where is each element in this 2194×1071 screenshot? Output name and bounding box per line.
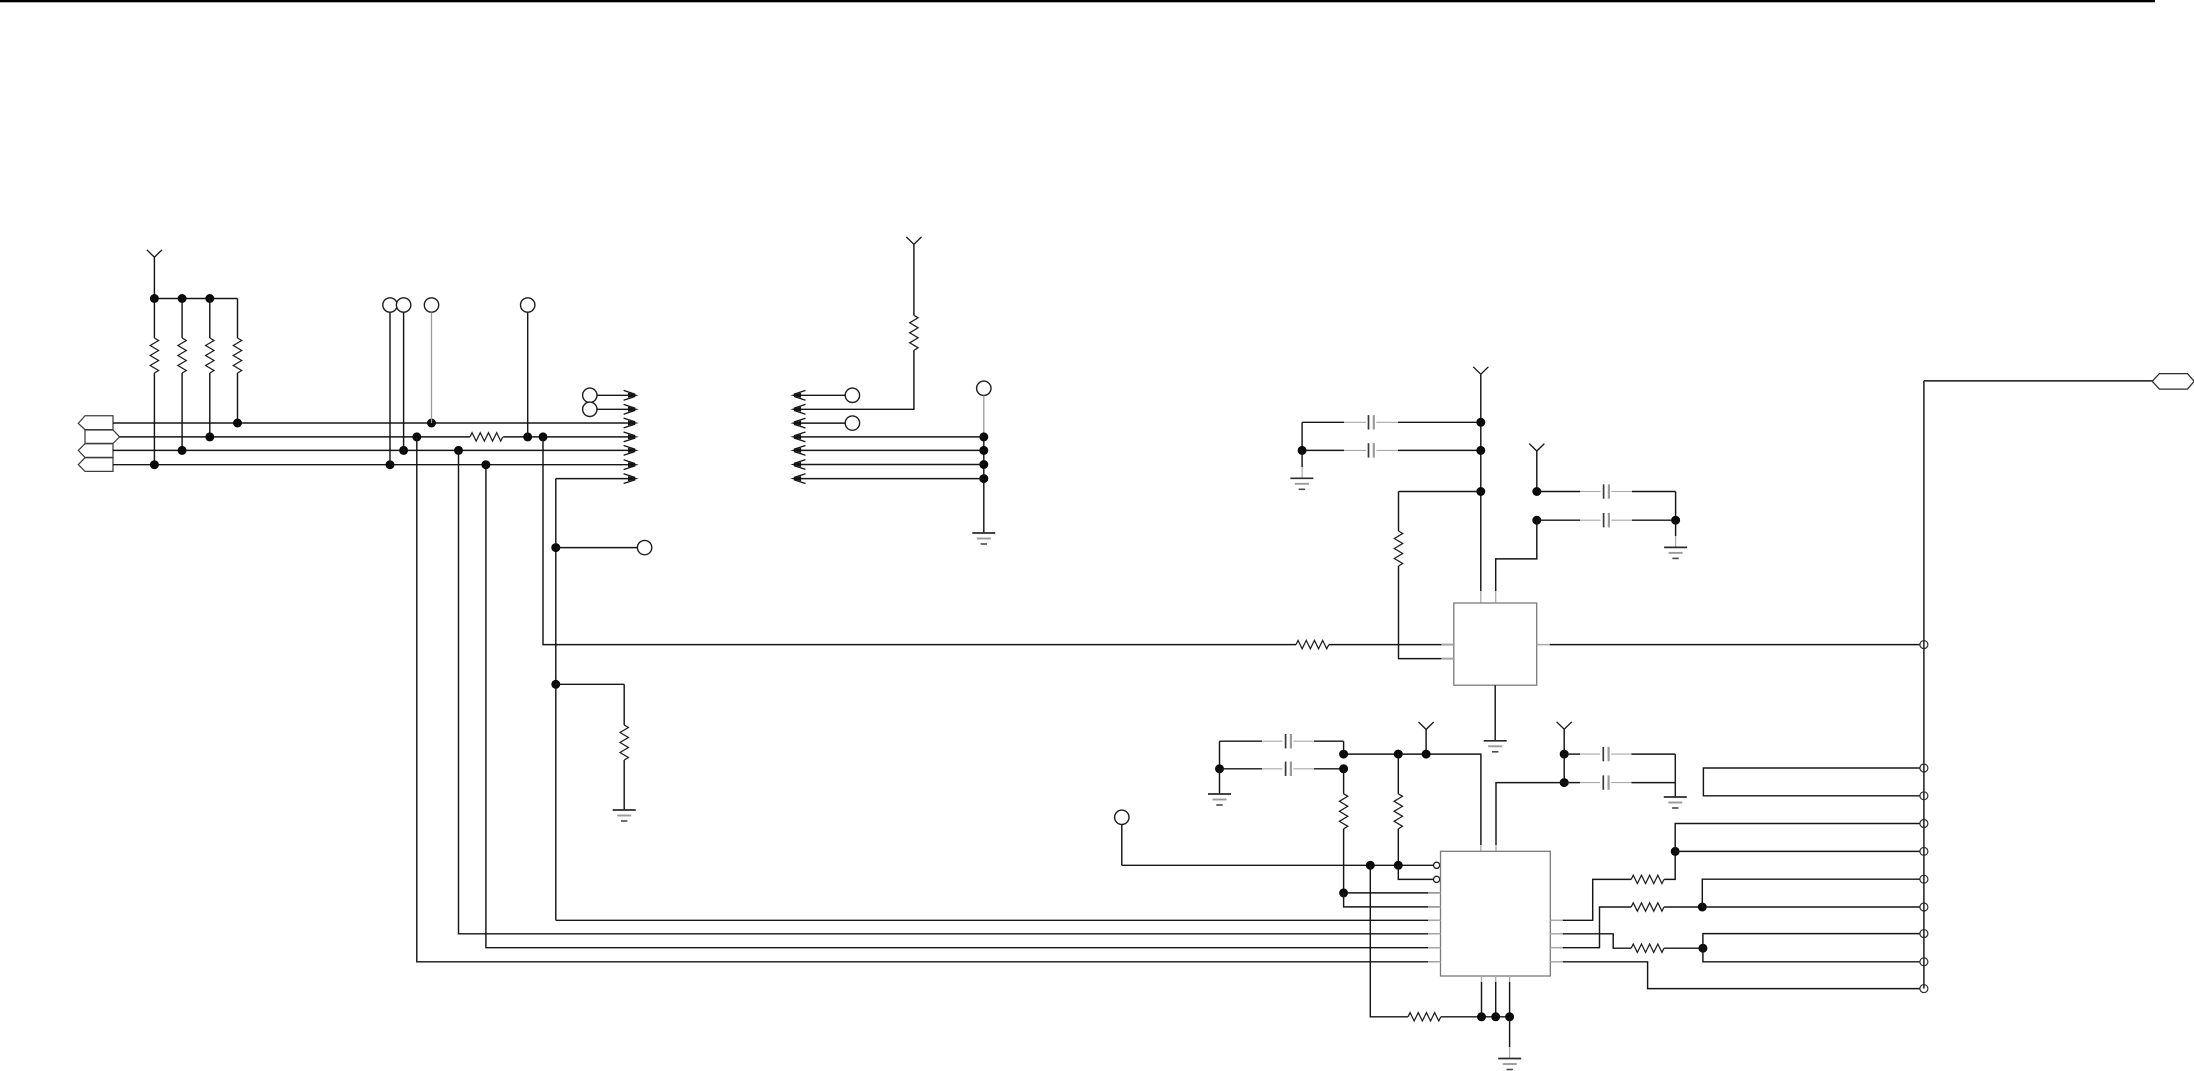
wire node B to T6	[1702, 879, 1920, 907]
wire row1	[1122, 864, 1433, 866]
wire bus4 to U2 pin7	[486, 465, 1441, 948]
node mid5	[979, 446, 988, 455]
pin stub U2 left 7	[1428, 947, 1441, 949]
ground GND2	[1664, 546, 1687, 548]
node VCC6-C8	[1560, 778, 1569, 787]
node bus2-branch	[539, 432, 548, 441]
node VCC1-R1	[150, 294, 159, 303]
wire C5 right down	[1343, 741, 1345, 754]
wire jumper T2-T3	[1703, 768, 1920, 796]
ground GND7	[972, 532, 995, 534]
node row1-drop	[1366, 861, 1375, 870]
wire to GND5	[1674, 783, 1676, 797]
capacitor C3	[1537, 491, 1580, 493]
wire C7 down	[1563, 754, 1565, 783]
title bar	[0, 0, 2155, 2]
pin stub U1 right	[1537, 644, 1550, 646]
wire mid row6	[800, 464, 984, 466]
ground GND3	[1484, 740, 1507, 742]
testpoint TP8	[845, 388, 859, 402]
wire VCC5 stub U2	[1480, 845, 1482, 851]
node row7-TP7	[551, 543, 560, 552]
pin stub U2 right 4	[1550, 961, 1563, 963]
wire VCC1 rail	[154, 298, 237, 300]
testpoint TP9	[845, 416, 859, 430]
node mid7	[979, 474, 988, 483]
wire node B to T7	[1702, 906, 1920, 908]
terminal T2	[1920, 764, 1928, 772]
terminal T4	[1920, 820, 1928, 828]
resistor R1	[153, 299, 155, 339]
pin stub U1 left A	[1441, 644, 1454, 646]
resistor R2	[181, 299, 183, 339]
node row7-R11	[551, 680, 560, 689]
node C2-VCC3	[1476, 446, 1485, 455]
power symbol VCC1	[147, 250, 162, 257]
resistor R3	[209, 299, 211, 339]
resistor R4	[237, 299, 239, 339]
op-amp U1	[1454, 603, 1537, 685]
resistor R9	[1408, 1013, 1441, 1021]
pin stub U1 left B	[1441, 658, 1454, 660]
wire C5 left down	[1219, 741, 1221, 769]
node R9-pin3	[1505, 1012, 1514, 1021]
terminal T8	[1920, 930, 1928, 938]
resistor R13	[1631, 875, 1664, 883]
wire VCC4 stub U1	[1495, 591, 1497, 603]
wire VCC6 to U2 top pin2	[1496, 783, 1564, 845]
pin stub U2 left 8	[1428, 961, 1441, 963]
capacitor C2	[1302, 449, 1344, 451]
wire bus2 right	[503, 436, 629, 438]
node VCC5-C5	[1339, 750, 1348, 759]
wire row1 drop to R9	[1370, 865, 1408, 1017]
wire to GND1	[1301, 450, 1303, 467]
wire R7 to U2 pin4	[1344, 893, 1441, 907]
arrow out2	[628, 407, 639, 412]
arrow in6	[790, 462, 801, 467]
node VCC5-R8	[1394, 750, 1403, 759]
wire R8 down	[1397, 829, 1399, 866]
node VCC6-C7	[1560, 750, 1569, 759]
arrow row7	[628, 476, 639, 481]
node bus3-R2	[178, 446, 187, 455]
wire VCC6 stub U2	[1495, 845, 1497, 851]
pin stub U2 left 5	[1428, 919, 1441, 921]
arrow in3	[790, 421, 801, 426]
resistor R11	[556, 683, 624, 685]
node C6-R7	[1339, 764, 1348, 773]
wire row7	[556, 478, 629, 480]
wire U2 bottom pin3	[1509, 982, 1511, 1017]
resistor R6	[910, 315, 918, 350]
wire R9 to pins	[1441, 1016, 1510, 1018]
testpoint TP2	[396, 298, 410, 312]
power symbol VCC3	[1473, 367, 1488, 374]
arrow bus2	[628, 434, 639, 439]
node C1-VCC3	[1476, 418, 1485, 427]
node bus4-NC1	[386, 460, 395, 469]
wire to GND4	[1219, 769, 1221, 794]
resistor R14	[1631, 903, 1664, 911]
terminal T9	[1920, 958, 1928, 966]
node VCC4-C4	[1532, 516, 1541, 525]
node C6-GND4	[1215, 764, 1224, 773]
testpoint TP3	[424, 298, 438, 312]
node bus4-R1	[150, 460, 159, 469]
testpoint TP6	[583, 402, 597, 416]
node bus2-down	[412, 432, 421, 441]
terminal T1	[1920, 641, 1928, 649]
arrow out1	[628, 393, 639, 398]
pin stub U2 right 1	[1550, 919, 1563, 921]
node bus1-NC3	[427, 419, 436, 428]
node VCC1-R3	[205, 294, 214, 303]
node A	[1671, 847, 1680, 856]
wire node C to T8	[1703, 934, 1920, 949]
terminal T10	[1920, 985, 1928, 993]
wire U2 pinR3 to R14	[1563, 907, 1631, 948]
arrow bus1	[628, 421, 639, 426]
wire U2 pinR4 to T10	[1563, 962, 1920, 989]
terminal T6	[1920, 875, 1928, 883]
node mid6	[979, 460, 988, 469]
node B	[1698, 903, 1707, 912]
wire bus1	[113, 422, 629, 424]
capacitor C1	[1302, 421, 1344, 423]
node VCC3-U1	[1476, 487, 1485, 496]
power symbol VCC2	[906, 237, 921, 244]
testpoint TP4	[521, 298, 535, 312]
resistor R8	[1397, 754, 1399, 794]
node C4-GND2	[1671, 516, 1680, 525]
node R7-pin3	[1339, 888, 1348, 897]
pin stub U2 left 6	[1428, 933, 1441, 935]
resistor R5	[1394, 531, 1402, 566]
wire mid row5	[800, 449, 984, 451]
wire row1 to row2	[1398, 865, 1433, 879]
arrow bus4	[628, 462, 639, 467]
wire R15 to node C	[1664, 947, 1703, 949]
node bus4-down	[481, 460, 490, 469]
wire U1 out to T1	[1550, 644, 1920, 646]
node VCC4-C3	[1532, 487, 1541, 496]
testpoint TP10	[977, 381, 991, 395]
wire bus2 left	[120, 436, 470, 438]
resistor R12	[1296, 640, 1329, 648]
power symbol VCC5	[1419, 722, 1434, 729]
wire row7 drop	[555, 479, 557, 921]
wire VCC3 stub U1	[1480, 591, 1482, 603]
node bus2-NC4	[523, 432, 532, 441]
connector J1	[78, 416, 113, 430]
wire mid row4	[800, 436, 984, 438]
arrow in5	[790, 448, 801, 453]
node VCC1-R2	[178, 294, 187, 303]
inverting pin bubble U2 pin1	[1434, 862, 1440, 868]
arrow in2	[790, 407, 801, 412]
wire U2 bottom pin1	[1481, 982, 1483, 1017]
arrow bus3	[628, 448, 639, 453]
node R9-pin2	[1491, 1012, 1500, 1021]
ground GND8	[1498, 1058, 1521, 1060]
terminal T5	[1920, 847, 1928, 855]
wire node C to T9	[1703, 948, 1920, 962]
node row1-R8	[1394, 861, 1403, 870]
wire bus2 to U2 pin8	[417, 437, 1441, 962]
wire R7 to U2 pin3	[1344, 829, 1441, 893]
node bus3-NC2	[399, 446, 408, 455]
wire to GND8	[1509, 1017, 1511, 1047]
node VCC5 stem	[1422, 750, 1431, 759]
testpoint TP7	[556, 547, 638, 549]
op-amp U2	[1441, 851, 1551, 976]
terminal T7	[1920, 903, 1928, 911]
net flag OUT	[2152, 374, 2194, 390]
capacitor C5	[1220, 740, 1263, 742]
node R9-pin1	[1477, 1012, 1486, 1021]
ground GND4	[1208, 793, 1231, 795]
node bus2-R3	[205, 432, 214, 441]
wire bus4	[113, 464, 629, 466]
wire to GND2	[1675, 520, 1677, 536]
node bus1-R4	[233, 419, 242, 428]
wire mid row7	[800, 478, 984, 480]
wire bus3 to U2 pin6	[459, 450, 1441, 933]
ground GND1	[1290, 477, 1313, 479]
wire R6 to arrow	[800, 350, 914, 409]
resistor R15	[1631, 944, 1664, 952]
arrow in4	[790, 434, 801, 439]
capacitor C4	[1537, 519, 1580, 521]
wire node A to T4	[1675, 824, 1920, 852]
testpoint TP1	[383, 298, 397, 312]
ground GND6	[613, 809, 636, 811]
wire VCC5 rail	[1344, 754, 1481, 845]
power symbol VCC6	[1557, 722, 1572, 729]
capacitor C8	[1564, 782, 1580, 784]
wire U2 pinR1 to R13	[1563, 879, 1631, 920]
wire VCC4 to U1 top	[1496, 520, 1537, 591]
pin stub U2 right 3	[1550, 947, 1563, 949]
power symbol VCC4	[1529, 444, 1544, 451]
wire terminal bus	[1923, 381, 1925, 989]
testpoint TP11	[1115, 810, 1129, 824]
wire R14 to node B	[1664, 906, 1702, 908]
wire U2 pinR2 to R15	[1563, 934, 1631, 948]
pin stub U2 left 3	[1428, 892, 1441, 894]
testpoint TP5	[583, 388, 597, 402]
pin stub U2 left 4	[1428, 906, 1441, 908]
node C2-GND1	[1298, 446, 1307, 455]
wire R5 top	[1399, 491, 1481, 493]
wire U1 bottom	[1494, 685, 1496, 740]
capacitor C6	[1220, 768, 1263, 770]
node mid4	[979, 432, 988, 441]
wire R5 to U1 pin B	[1399, 566, 1454, 659]
wire C3 down	[1675, 492, 1677, 521]
terminal T3	[1920, 792, 1928, 800]
wire U2 bottom pin2	[1495, 982, 1497, 1017]
node bus3-down	[454, 446, 463, 455]
resistor R10	[470, 433, 503, 441]
wire node A to T5	[1675, 850, 1920, 852]
wire R12 to U1	[1329, 644, 1454, 646]
arrow in7	[790, 476, 801, 481]
arrow in1	[790, 393, 801, 398]
wire bus2 to U1 pin A	[543, 437, 1296, 645]
node C	[1698, 944, 1707, 953]
capacitor C7	[1564, 753, 1580, 755]
inverting pin bubble U2 pin2	[1434, 876, 1440, 882]
wire R13 to node A	[1664, 851, 1675, 879]
wire bus3	[113, 449, 629, 451]
pin stub U2 right 2	[1550, 933, 1563, 935]
wire C1 down	[1301, 422, 1303, 450]
ground GND5	[1664, 796, 1687, 798]
resistor R7	[1343, 769, 1345, 794]
wire bus to flag	[1924, 380, 2152, 382]
